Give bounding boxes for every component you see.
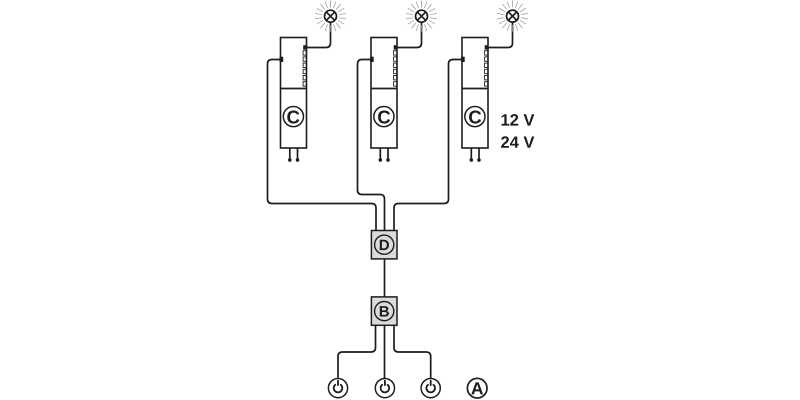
switch S2 (power button) [375,379,394,398]
wire: lamp 2 to module 2 output [395,20,421,48]
label A [471,382,483,394]
distributor box D [371,231,397,259]
node A [467,378,487,398]
module C2 (power supply) [370,38,397,162]
lamp E2 [406,1,437,32]
label B [380,306,389,316]
label D [380,240,389,250]
wire: module 3 input down to distributor D [394,60,463,232]
voltage label 12 V [502,114,535,126]
wire: lamp 1 to module 1 output [304,20,330,48]
module C3 (power supply) [461,38,488,162]
wire: module 1 input down to distributor D [268,60,377,232]
wire: box B to switch 2 [384,325,386,378]
wire: module 2 input down to distributor D [358,60,385,232]
label C3 [469,110,481,123]
wire: box B to switch 3 [394,325,431,378]
label C1 [287,110,299,123]
voltage label 24 V [501,136,534,148]
junction box B [371,297,397,325]
wire: distributor D to box B [384,259,386,298]
lamp E1 [315,1,346,32]
switch S1 (power button) [328,379,347,398]
wire: box B to switch 1 [338,325,376,378]
label C2 [378,110,390,123]
module C1 (power supply) [280,38,307,162]
lamp E3 [497,0,528,31]
switch S3 (power button) [421,379,440,398]
wire: lamp 3 to module 3 output [486,20,512,48]
